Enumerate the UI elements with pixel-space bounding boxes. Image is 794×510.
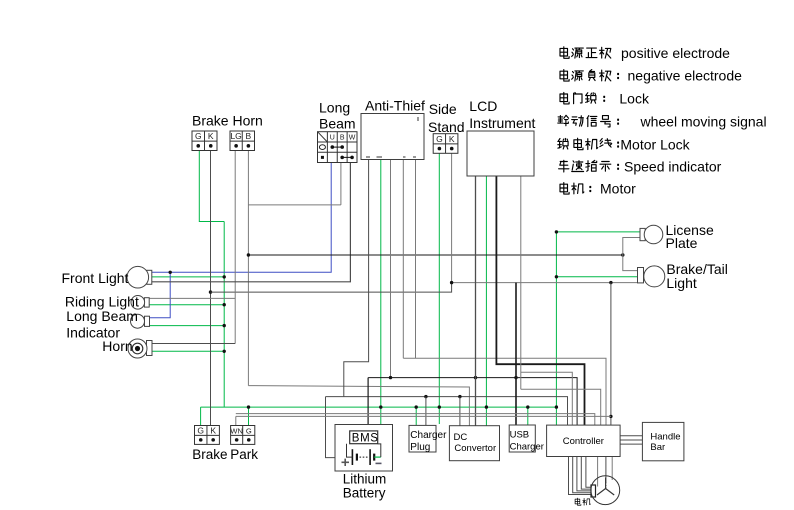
bms box	[350, 431, 378, 444]
svg-text:U: U	[330, 134, 335, 141]
legend wheel moving signal	[558, 113, 767, 129]
wire brake-top G green	[199, 151, 224, 222]
svg-text:G: G	[436, 134, 443, 144]
license plate bulb	[640, 225, 663, 244]
wire park WN stub	[235, 416, 237, 425]
wire ctrl-handle 1	[620, 435, 642, 437]
svg-text:Light: Light	[666, 275, 696, 291]
legend positive electrode	[560, 45, 730, 61]
wire gray line a	[236, 414, 595, 426]
junction lcd1 bus	[474, 376, 477, 379]
svg-text:Plate: Plate	[666, 235, 698, 251]
svg-text:K: K	[208, 131, 214, 141]
wire ctrl-handle 3	[620, 443, 642, 445]
lcd instrument box	[467, 131, 534, 176]
svg-text:Stand: Stand	[428, 119, 465, 135]
svg-text:USB: USB	[510, 430, 530, 441]
svg-text:Motor: Motor	[600, 181, 636, 197]
wire park G stub	[248, 407, 250, 425]
wire brake K to sidestand	[211, 283, 452, 293]
junction gray bus right	[609, 415, 612, 418]
wire horn B vertical	[247, 151, 249, 386]
wire side stand G green	[438, 153, 440, 424]
wire horn-longbeam link	[248, 204, 341, 206]
charger plug box	[409, 425, 436, 452]
battery minus sign	[376, 462, 382, 464]
battery green segment	[374, 456, 381, 458]
wire motor phase 4	[581, 457, 591, 490]
svg-text:K: K	[210, 425, 216, 435]
wire riding light gray	[149, 297, 235, 299]
junction horn green	[223, 350, 226, 353]
wire motor hall	[605, 457, 607, 483]
legend motor	[560, 181, 636, 197]
junction tail green bus	[555, 405, 558, 408]
wire gray line b	[236, 415, 611, 417]
connector side-stand G/K	[433, 134, 458, 154]
wire anti-thief pin3	[390, 160, 392, 378]
svg-text:B: B	[246, 131, 252, 141]
wire lcd green	[485, 176, 487, 426]
battery plus sign	[342, 459, 350, 466]
anti-thief box	[361, 114, 424, 160]
wire anti-thief green	[380, 160, 382, 425]
usb charger box	[509, 425, 535, 452]
anti-thief ticks	[366, 117, 418, 157]
junction indicator green	[223, 324, 226, 327]
svg-text:WN: WN	[230, 426, 243, 435]
svg-text:K: K	[449, 134, 455, 144]
handle bar box	[642, 422, 684, 460]
junction brake-tail green	[555, 275, 558, 278]
svg-text:Anti-Thief: Anti-Thief	[365, 98, 425, 114]
motor circle	[591, 476, 620, 505]
svg-text:Long Beam: Long Beam	[66, 308, 138, 324]
junction front-light green	[223, 275, 226, 278]
wire longbeam W to front light	[152, 163, 351, 282]
brake/tail bulb	[638, 266, 665, 287]
wire ctrl-handle 2	[620, 439, 642, 441]
svg-text:B: B	[340, 134, 345, 141]
svg-text:LCD: LCD	[469, 98, 497, 114]
wire plus bus to controller	[326, 397, 568, 426]
wire horn B to dc	[248, 386, 469, 426]
svg-text:Brake Horn: Brake Horn	[192, 113, 263, 129]
svg-text:Park: Park	[230, 447, 258, 462]
svg-text:BMS: BMS	[352, 433, 379, 445]
connector brake-bottom G/K	[195, 425, 220, 444]
wire front light green	[152, 276, 224, 278]
wire front light long-beam blue	[152, 163, 331, 273]
svg-text:G: G	[197, 425, 204, 435]
wire sidestand-tail line	[452, 282, 638, 284]
svg-text:Bar: Bar	[650, 442, 665, 453]
wire motor hall dotted	[605, 482, 607, 488]
svg-text:wheel moving signal: wheel moving signal	[640, 113, 767, 129]
wire indicator green	[150, 325, 225, 327]
svg-text:Side: Side	[429, 101, 457, 117]
riding light bulb	[131, 296, 149, 310]
motor terminal bar	[591, 485, 596, 497]
connector horn LG/B	[230, 131, 255, 151]
wire dc feed stub	[459, 397, 461, 426]
wire motor phase 5	[586, 457, 592, 488]
wire longbeam col3 stub	[340, 163, 342, 205]
connector brake-top G/K	[192, 131, 217, 151]
wire anti-thief pin4	[402, 160, 404, 359]
junction riding-light green	[223, 303, 226, 306]
svg-text:Horn: Horn	[102, 338, 132, 354]
bms left leg	[347, 444, 353, 457]
bms right leg	[378, 444, 381, 457]
svg-text:Instrument: Instrument	[469, 115, 535, 131]
wire anti-thief pin5	[415, 160, 417, 359]
junction anti-thief pin3 bus	[389, 376, 392, 379]
dc convertor box	[449, 426, 499, 461]
wire license green	[556, 231, 640, 233]
wire lcd pin4	[520, 176, 522, 389]
wire riding light green	[149, 304, 224, 306]
svg-text:DC: DC	[454, 432, 468, 443]
junction usb green	[526, 405, 529, 408]
svg-text:G: G	[195, 131, 202, 141]
wire brake signal long	[248, 254, 622, 256]
wire motor phase 1	[569, 457, 592, 495]
svg-text:Plug: Plug	[410, 442, 430, 453]
wire lcd pin4 branch b	[521, 389, 601, 425]
svg-text:Long: Long	[319, 100, 350, 116]
svg-text:W: W	[349, 134, 356, 141]
junction brake K	[209, 290, 212, 293]
junction anti-thief green bus	[379, 405, 382, 408]
front light bulb	[127, 266, 152, 288]
junction brake signal left	[247, 253, 250, 256]
wire horn black	[152, 343, 235, 345]
svg-text:Lithium: Lithium	[343, 472, 387, 487]
legend motor lock	[558, 136, 691, 152]
wire lcd pin1	[475, 176, 477, 426]
svg-text:Speed indicator: Speed indicator	[624, 159, 722, 175]
svg-text:Charger: Charger	[510, 442, 544, 453]
wire lcd pin3 thick	[496, 176, 584, 425]
junction lcd green bus	[485, 405, 488, 408]
svg-text:Brake: Brake	[192, 447, 227, 462]
legend speed indicator	[559, 159, 722, 175]
wire charger plug stub	[425, 397, 427, 426]
wire charger plug green stub	[415, 407, 417, 425]
junction sidestand K	[450, 281, 453, 284]
wire horn LG vertical	[234, 151, 236, 344]
junction brake signal right	[621, 253, 624, 256]
junction blue	[169, 271, 172, 274]
wire green bus vertical	[223, 222, 225, 408]
svg-text:Battery: Battery	[343, 486, 386, 501]
svg-text:positive electrode: positive electrode	[621, 45, 730, 61]
wire anti-thief pin1	[344, 160, 369, 397]
wire motor aux 1	[597, 457, 599, 487]
svg-text:Charger: Charger	[410, 430, 447, 441]
wire motor phase 3	[577, 457, 592, 491]
junction usb bus	[514, 376, 517, 379]
wire side stand K vertical	[451, 153, 453, 282]
svg-text:Motor Lock: Motor Lock	[620, 136, 690, 152]
label motor cjk	[575, 498, 590, 505]
wire brake-bottom G stub	[200, 407, 202, 425]
junction charger green	[415, 405, 418, 408]
wire motor aux 2	[611, 457, 613, 481]
junction license green	[555, 230, 558, 233]
svg-text:Convertor: Convertor	[454, 443, 496, 454]
wire battery red segment	[344, 457, 352, 459]
wire bottom green bus	[201, 406, 557, 408]
wire horn green	[152, 350, 224, 352]
controller box	[547, 425, 621, 456]
junction tail drop	[609, 281, 612, 284]
svg-text:Front Light: Front Light	[62, 270, 129, 286]
wire battery plus feed	[326, 397, 345, 458]
legend negative electrode	[560, 68, 742, 84]
legend lock	[560, 91, 650, 107]
svg-text:Handle: Handle	[650, 431, 680, 442]
svg-text:Controller: Controller	[563, 436, 604, 447]
junction dc feed	[458, 395, 461, 398]
svg-text:Beam: Beam	[319, 116, 356, 132]
connector long-beam grid	[318, 132, 358, 163]
long-beam indicator bulb	[131, 314, 150, 328]
wire indicator blue	[150, 272, 171, 318]
svg-text:G: G	[246, 426, 252, 435]
wire motor phase 2	[573, 457, 592, 493]
horn symbol	[128, 339, 152, 358]
wire brake K vertical	[210, 151, 212, 426]
connector park WN/G	[230, 426, 254, 445]
wire usb vertical	[515, 283, 517, 425]
wire minus bus to controller	[368, 378, 577, 426]
wire license gray	[623, 238, 640, 271]
wire tail green vertical	[555, 232, 557, 425]
battery symbol	[352, 449, 374, 465]
wire anti-thief to controller	[403, 358, 606, 425]
wire tail drop to controller	[610, 283, 612, 426]
svg-text:negative electrode: negative electrode	[628, 68, 743, 84]
wire brake-tail green	[556, 276, 638, 278]
wire lcd pin4 branch a	[521, 372, 573, 425]
junction park G	[247, 405, 250, 408]
wire bms drop	[367, 378, 369, 431]
junction sidestand green bus	[438, 405, 441, 408]
wire usb green stub	[527, 407, 529, 425]
junction charger plug feed	[424, 395, 427, 398]
svg-text:Lock: Lock	[619, 91, 650, 107]
svg-text:LG: LG	[230, 131, 241, 141]
lithium battery box	[335, 425, 393, 472]
